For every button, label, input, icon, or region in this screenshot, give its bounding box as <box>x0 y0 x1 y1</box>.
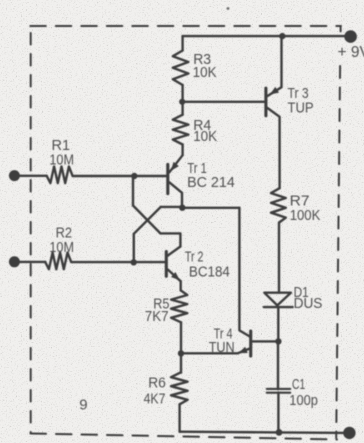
wire C1 to bottom rail <box>277 393 279 433</box>
svg-text:10K: 10K <box>193 129 217 145</box>
svg-text:10K: 10K <box>193 65 217 81</box>
speck artifact top <box>227 7 230 10</box>
wire R3 column top <box>181 36 183 50</box>
svg-text:Tr 3: Tr 3 <box>288 86 309 102</box>
node D1 C1 Tr4-base <box>275 338 281 344</box>
svg-text:10M: 10M <box>49 240 74 256</box>
node R2 Tr2-base junction <box>131 259 137 265</box>
svg-text:+ 9V: + 9V <box>338 44 364 61</box>
wire R2 to Tr2 base <box>71 261 165 263</box>
wire cross-coupling diagonal A <box>133 206 160 234</box>
wire R6 to bottom rail <box>178 404 180 431</box>
wire D1 to node <box>277 307 279 341</box>
transistor Tr4 <box>181 331 278 356</box>
terminal bottom right <box>343 427 355 439</box>
node R5 R6 Tr4-emitter <box>178 350 184 356</box>
wire cross-coupling upper-left vertical <box>132 176 134 206</box>
wire cross-coupling lower-left vertical <box>133 234 135 262</box>
border dashed frame right corner dash <box>340 27 342 31</box>
svg-text:10M: 10M <box>49 153 74 169</box>
node Tr1 collector junction <box>179 205 185 211</box>
border dashed frame left <box>30 33 32 433</box>
wire R7 to D1 <box>278 223 280 293</box>
svg-text:Tr 2: Tr 2 <box>185 249 204 265</box>
wire R4 to Tr1 emitter <box>181 145 183 156</box>
node bottom rail C1 <box>276 429 283 436</box>
wire cross-coupling diagonal B <box>134 207 161 234</box>
svg-text:BC 214: BC 214 <box>187 175 235 191</box>
wire R3 to R4 <box>181 85 183 115</box>
capacitor C1 <box>267 389 290 393</box>
svg-text:100p: 100p <box>289 393 318 409</box>
svg-text:9: 9 <box>79 396 87 413</box>
border dashed frame top <box>30 25 341 27</box>
svg-text:BC184: BC184 <box>189 264 230 280</box>
wire cross-coupling to Tr2 collector <box>160 233 180 246</box>
terminal input 1 <box>9 170 20 181</box>
wire middle column to Tr4 collector <box>239 208 250 337</box>
svg-text:7K7: 7K7 <box>145 309 169 325</box>
svg-text:100K: 100K <box>290 208 321 224</box>
wire input1 to R1 <box>14 175 46 177</box>
wire R1 to Tr1 base <box>73 175 167 177</box>
svg-text:C1: C1 <box>292 377 305 393</box>
node top rail Tr3 emitter <box>279 33 285 39</box>
wire +9V top rail <box>183 35 351 37</box>
wire node to C1 <box>277 341 279 389</box>
svg-text:TUP: TUP <box>288 101 314 117</box>
resistor R2 <box>45 253 71 270</box>
node R3-R4 junction <box>179 99 185 105</box>
svg-text:DUS: DUS <box>294 296 323 312</box>
border dashed frame right <box>336 66 340 438</box>
svg-text:TUN: TUN <box>209 340 235 356</box>
wire Tr1 node to middle column <box>182 207 239 209</box>
node R1 Tr1-base junction <box>131 173 137 179</box>
resistor R5 <box>171 291 187 323</box>
svg-text:R6: R6 <box>148 376 166 392</box>
border dashed frame bottom <box>31 434 338 440</box>
transistor Tr3 <box>266 36 282 188</box>
resistor R6 <box>171 373 188 405</box>
terminal input 2 <box>9 256 20 267</box>
resistor R3 <box>173 51 189 86</box>
svg-text:4K7: 4K7 <box>144 392 166 408</box>
diode D1 <box>264 293 293 307</box>
resistor R4 <box>173 115 189 145</box>
wire Tr2 emitter to R5 <box>179 281 181 290</box>
wire R5 to R6 <box>180 322 182 372</box>
wire cross-coupling from Tr1 collector node <box>161 206 183 208</box>
resistor R1 <box>47 167 73 184</box>
resistor R7 <box>271 188 286 222</box>
wire junction to Tr3 base <box>182 101 264 103</box>
terminal +9V <box>344 30 357 43</box>
transistor Tr1 <box>168 155 183 207</box>
transistor Tr2 <box>166 247 180 282</box>
wire input2 to R2 <box>14 261 45 263</box>
wire bottom rail <box>180 432 349 433</box>
